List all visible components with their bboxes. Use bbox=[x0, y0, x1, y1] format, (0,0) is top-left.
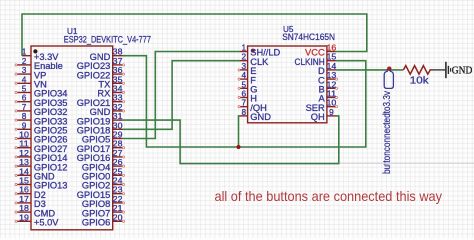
svg-text:GND: GND bbox=[452, 65, 473, 76]
U1 pin 2 (Enable) left stub bbox=[17, 64, 31, 66]
wire GND net: U1 pin38 GND to U5 CLKINH (pin15) bbox=[123, 56, 366, 147]
U1 pin 35 (TX) right stub bbox=[113, 82, 123, 84]
pushbutton SW (connected to 3.3v) bbox=[384, 69, 393, 88]
U1 pin 31 (GPIO19) right stub bbox=[113, 119, 123, 121]
U1 pin 21 (GPIO7) right stub bbox=[113, 211, 123, 213]
U1 pin 20 (GPIO6) right stub bbox=[113, 220, 123, 222]
U1 pin 25 (GPIO0) right stub bbox=[113, 174, 123, 176]
U1 pin 3 (VP) left stub bbox=[17, 73, 31, 75]
svg-text:10k: 10k bbox=[410, 75, 430, 87]
svg-text:19: 19 bbox=[19, 212, 29, 222]
U1 pin 6 (GPIO35) left stub bbox=[17, 101, 31, 103]
U1 pin 1 orientation dot bbox=[33, 49, 37, 53]
U1 pin 17 (D3) left stub bbox=[17, 202, 31, 204]
svg-text:8: 8 bbox=[241, 107, 246, 117]
U1 pin 29 (GPIO5) right stub bbox=[113, 138, 123, 140]
U1 pin 34 (RX) right stub bbox=[113, 92, 123, 94]
U5 pin 5 (G) left stub bbox=[240, 87, 248, 89]
wire GND branch to U5 pin8 GND bbox=[239, 116, 241, 147]
U1 pin 24 (GPIO2) right stub bbox=[113, 184, 123, 186]
U5 pin 15 (CLKINH) right stub bbox=[327, 60, 336, 62]
U1 pin 37 (GPIO23) right stub bbox=[113, 64, 123, 66]
U1 pin 18 (CMD) left stub bbox=[17, 211, 31, 213]
svg-text:QH: QH bbox=[311, 112, 325, 122]
wire 3V3 net: U1 pin1 +3.3V to U5 pin16 VCC bbox=[22, 14, 367, 56]
junction node D / button bbox=[387, 67, 391, 71]
U5 pin 7 (/QH) left stub bbox=[240, 106, 248, 108]
wire U5 pin14 D to resistor R bbox=[336, 69, 404, 71]
U1 pin 23 (GPIO15) right stub bbox=[113, 193, 123, 195]
junction GND net bbox=[236, 145, 240, 149]
svg-text:ESP32_DEVKITC_V4-777: ESP32_DEVKITC_V4-777 bbox=[64, 35, 151, 46]
U1 pin 26 (GPIO4) right stub bbox=[113, 165, 123, 167]
U5 pin 10 (SER) right stub bbox=[327, 106, 336, 108]
U1 pin 12 (GPIO14) left stub bbox=[17, 156, 31, 158]
U5 pin 6 (H) left stub bbox=[240, 97, 248, 99]
U5 pin 16 (VCC) right stub bbox=[327, 51, 336, 53]
U1 pin 8 (GPIO33) left stub bbox=[17, 119, 31, 121]
U5 pin 12 (B) right stub bbox=[327, 87, 336, 89]
U1 pin 32 (GND) right stub bbox=[113, 110, 123, 112]
IC U1 body (ESP32 module rectangle) bbox=[31, 46, 113, 230]
U5 pin 9 (QH) right stub bbox=[327, 115, 336, 117]
construction line (faint) bbox=[340, 162, 474, 164]
U1 pin 10 (GPIO26) left stub bbox=[17, 138, 31, 140]
ground symbol GND bars bbox=[445, 62, 447, 78]
U5 pin 1 (SH//LD) left stub bbox=[240, 51, 248, 53]
U1 pin 5 (GPIO34) left stub bbox=[17, 92, 31, 94]
U1 pin 1 (+3.3V) left stub bbox=[22, 55, 31, 57]
wire U1 GPIO18 (pin30) to U5 CLK (pin2) bbox=[123, 61, 241, 130]
svg-text:SN74HC165N: SN74HC165N bbox=[282, 32, 335, 43]
IC U5 body (SN74HC165N rectangle) bbox=[248, 46, 327, 123]
U1 pin 14 (GND) left stub bbox=[17, 174, 31, 176]
U1 pin 30 (GPIO18) right stub bbox=[113, 128, 123, 130]
U1 pin 13 (GPIO12) left stub bbox=[17, 165, 31, 167]
svg-text:9: 9 bbox=[329, 107, 334, 117]
wire U1 GPIO5 (pin29) to U5 SH//LD (pin1) bbox=[123, 52, 241, 139]
U1 pin 9 (GPIO25) left stub bbox=[17, 128, 31, 130]
resistor R 10k bbox=[403, 66, 431, 75]
wire resistor to ground bbox=[432, 69, 446, 71]
U1 pin 22 (GPIO8) right stub bbox=[113, 202, 123, 204]
U1 pin 11 (GPIO27) left stub bbox=[17, 147, 31, 149]
U5 pin 8 (GND) left stub bbox=[240, 115, 248, 117]
U1 pin 27 (GPIO16) right stub bbox=[113, 156, 123, 158]
U1 pin 15 (GPIO13) left stub bbox=[17, 184, 31, 186]
U1 pin 7 (GPIO32) left stub bbox=[17, 110, 31, 112]
wire U1 GPIO19 (pin31) to U5 QH (pin9) bbox=[123, 116, 339, 164]
U1 pin 28 (GPIO17) right stub bbox=[113, 147, 123, 149]
U1 pin 33 (GPIO21) right stub bbox=[113, 101, 123, 103]
U5 pin 11 (A) right stub bbox=[327, 97, 336, 99]
U1 pin 38 (GND) right stub bbox=[113, 55, 123, 57]
U1 pin 36 (GPIO22) right stub bbox=[113, 73, 123, 75]
svg-text:all of the buttons are connect: all of the buttons are connected this wa… bbox=[215, 189, 443, 204]
U1 pin 19 (+5.0V) left stub bbox=[17, 220, 31, 222]
U5 pin 1 orientation dot bbox=[251, 49, 255, 53]
U1 pin 16 (D2) left stub bbox=[17, 193, 31, 195]
svg-text:GPIO6: GPIO6 bbox=[82, 218, 110, 228]
U5 pin 3 (E) left stub bbox=[240, 69, 248, 71]
U5 pin 13 (C) right stub bbox=[327, 78, 336, 80]
U1 pin 4 (VN) left stub bbox=[17, 82, 31, 84]
svg-text:buttonconnectedto3.3v: buttonconnectedto3.3v bbox=[381, 90, 393, 174]
svg-text:GND: GND bbox=[250, 112, 271, 122]
svg-text:+5.0V: +5.0V bbox=[34, 218, 59, 228]
U5 pin 14 (D) right stub bbox=[327, 69, 336, 71]
U5 pin 2 (CLK) left stub bbox=[240, 60, 248, 62]
svg-text:20: 20 bbox=[113, 212, 123, 222]
U5 pin 4 (F) left stub bbox=[240, 78, 248, 80]
